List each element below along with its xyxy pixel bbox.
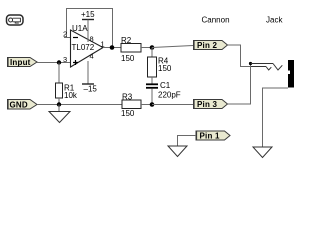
svg-text:U1A: U1A [72,24,88,33]
wire jack sleeve to ground [263,88,289,147]
GND net label [7,100,37,110]
node junction output/feedback [110,45,115,50]
wire ground rail [37,104,122,106]
wire input to op-amp pin3 [37,62,70,64]
svg-text:220pF: 220pF [158,91,181,100]
svg-text:Pin 2: Pin 2 [197,41,217,50]
Pin 2 net label [193,41,228,51]
svg-text:GND: GND [10,101,28,110]
ground symbol (Pin 1) [168,146,187,157]
wire R2 to node [141,47,152,49]
svg-text:150: 150 [158,64,172,73]
svg-text:C1: C1 [160,81,171,90]
jack plug body J1 [288,60,294,88]
node junction tip contact [249,62,252,65]
node junction input/R1 [57,60,61,64]
Pin 1 net label [196,131,231,141]
svg-text:Pin 1: Pin 1 [200,132,220,141]
pin number 8 [90,35,94,44]
svg-text:150: 150 [121,109,135,118]
jack ring contact [250,67,271,71]
wire R4 to C1 [151,77,153,84]
svg-text:8: 8 [90,35,94,44]
wire R1 top [58,63,60,84]
svg-text:3: 3 [63,55,67,64]
power +15 rail [81,10,95,42]
jack tip contact [251,64,283,71]
wire node to Pin 3 label [152,104,193,106]
svg-text:4: 4 [90,52,94,61]
logo icon top-left [7,15,24,25]
wire R1 bottom [58,98,60,105]
Pin 3 net label [193,100,228,110]
resistor R4 [148,57,172,78]
capacitor C1 220pF [146,81,181,100]
svg-text:R3: R3 [122,93,133,102]
resistor R2 [121,36,141,63]
wire Pin 3 to jack tip [228,64,251,105]
Input net label [7,58,37,68]
node junction R3/C1/Pin3 [150,102,155,107]
wire Pin 1 to ground [178,136,197,147]
header text Cannon [202,16,230,25]
svg-text:+15: +15 [81,10,95,19]
svg-text:Cannon: Cannon [202,16,230,25]
power -15 rail [82,61,97,94]
resistor R1 [56,83,78,100]
header text Jack [266,16,283,25]
ground symbol (right) [253,147,272,158]
pin number 3 [63,55,67,64]
ground symbol (left) [49,105,70,123]
wire op-amp output [103,47,121,49]
svg-text:150: 150 [121,54,135,63]
pin number 2 [63,30,67,39]
resistor R3 [121,93,141,119]
wire pin2 lead [64,37,70,39]
svg-text:2: 2 [63,30,67,39]
op-amp U1A TL072 [71,24,104,67]
wire R3 to node [141,104,152,106]
svg-text:Input: Input [10,58,31,67]
wire C1 bottom [151,89,153,105]
wire R4 top [151,48,153,58]
pin number 4 [90,52,94,61]
svg-text:–15: –15 [84,85,98,94]
svg-text:10k: 10k [64,91,78,100]
svg-text:Jack: Jack [266,16,283,25]
svg-text:Pin 3: Pin 3 [197,100,217,109]
wire feedback loop (pin2 to output) [67,9,113,48]
node junction R2/R4/Pin2 [150,45,155,50]
wire Pin 2 to jack ring [228,45,251,67]
pin number 1 [101,40,105,49]
svg-text:R2: R2 [121,36,132,45]
wire node to Pin 2 label [152,46,193,48]
node junction R1/GND rail [57,102,61,106]
